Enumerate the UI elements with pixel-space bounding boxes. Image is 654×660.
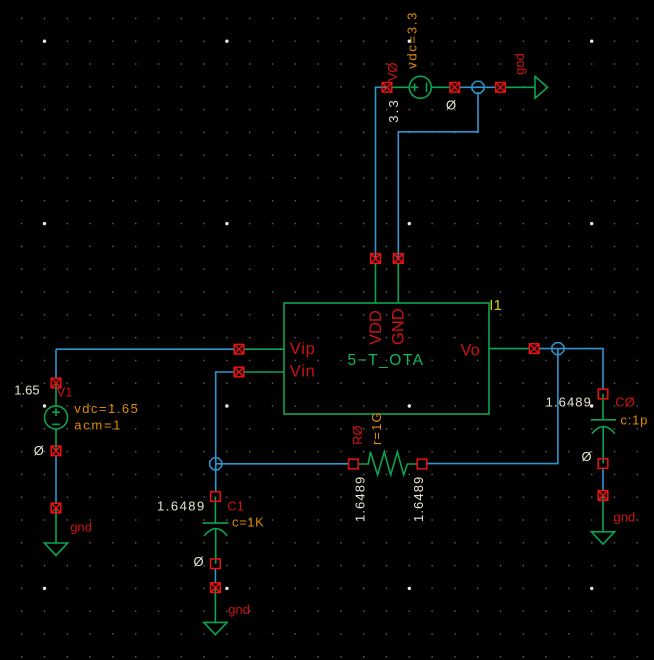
svg-text:CØ: CØ xyxy=(615,395,635,410)
svg-text:gnd: gnd xyxy=(614,510,636,525)
svg-text:1.6489: 1.6489 xyxy=(411,476,426,522)
svg-text:1.6489: 1.6489 xyxy=(546,394,592,409)
svg-text:Ø: Ø xyxy=(582,449,592,464)
svg-text:c=1K: c=1K xyxy=(232,515,264,530)
svg-text:I1: I1 xyxy=(489,297,502,314)
svg-text:r=1G: r=1G xyxy=(369,411,384,445)
svg-text:C1: C1 xyxy=(227,498,244,513)
svg-text:1.6489: 1.6489 xyxy=(157,498,206,513)
svg-text:Vo: Vo xyxy=(461,341,480,359)
svg-text:gnd: gnd xyxy=(512,53,527,75)
svg-text:Vin: Vin xyxy=(290,362,316,380)
svg-text:V1: V1 xyxy=(57,385,73,400)
svg-text:Vip: Vip xyxy=(290,340,316,358)
svg-text:1.6489: 1.6489 xyxy=(353,476,368,522)
svg-text:3.3: 3.3 xyxy=(386,98,401,123)
svg-text:Ø: Ø xyxy=(34,443,44,458)
svg-text:c:1p: c:1p xyxy=(620,412,648,427)
svg-text:gnd: gnd xyxy=(70,520,92,535)
svg-text:VØ: VØ xyxy=(385,63,400,82)
svg-text:Ø: Ø xyxy=(446,98,456,113)
svg-text:gnd: gnd xyxy=(228,602,250,617)
svg-text:RØ: RØ xyxy=(350,425,365,445)
svg-text:Ø: Ø xyxy=(194,554,204,569)
svg-text:vdc=1.65: vdc=1.65 xyxy=(74,401,139,416)
svg-text:acm=1: acm=1 xyxy=(74,418,122,433)
svg-text:vdc=3.3: vdc=3.3 xyxy=(405,11,420,69)
svg-text:VDD: VDD xyxy=(367,310,385,345)
svg-text:5−T_OTA: 5−T_OTA xyxy=(348,352,425,369)
svg-text:1.65: 1.65 xyxy=(14,383,39,398)
svg-text:GND: GND xyxy=(390,308,408,345)
